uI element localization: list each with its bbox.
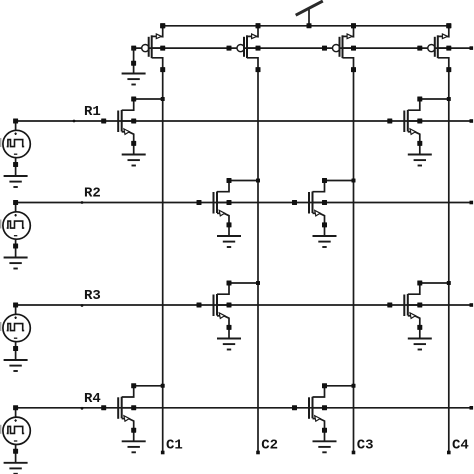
svg-text:C4: C4 <box>452 438 469 454</box>
transistor M7 PMOS pull-up on column C3 <box>322 23 356 72</box>
node: end of row R3 <box>470 303 474 307</box>
transistor M41 NMOS cell at row R4 column C1 with ground <box>101 383 165 452</box>
svg-text:R1: R1 <box>84 104 101 120</box>
ground of PMOS gate bus <box>122 74 146 85</box>
node: top rail junction at column C3 <box>351 23 356 28</box>
node: wire vertex on row R1 <box>73 120 76 123</box>
wire: PMOS gate bus to ground <box>131 48 136 73</box>
svg-text:R3: R3 <box>84 288 101 304</box>
node: end of row R2 <box>470 201 474 205</box>
node: bottom end of column C3 <box>352 451 356 455</box>
node: top rail junction at column C1 <box>160 23 165 28</box>
voltage source V2 (pulse) with ground, drives row R2 <box>0 200 30 269</box>
transistor M6 PMOS pull-up on column C2 <box>227 23 261 72</box>
wire: column C4 vertical net <box>448 70 450 453</box>
wire: row R4 horizontal net <box>16 407 472 409</box>
node: top rail junction at column C4 <box>446 23 451 28</box>
wire: VDD top supply rail <box>163 25 449 27</box>
svg-text:R4: R4 <box>84 391 101 407</box>
node: top rail junction at column C2 <box>256 23 261 28</box>
power symbol VDD (stub and slash) <box>296 1 323 28</box>
wire: row R1 horizontal net <box>16 120 472 122</box>
wire: PMOS gate bus <box>134 47 472 49</box>
transistor M23 NMOS cell at row R2 column C3 with ground <box>292 178 356 247</box>
wire: column C1 vertical net <box>162 70 164 453</box>
node: wire vertex on row R3 <box>81 304 84 307</box>
voltage source V4 (pulse) with ground, drives row R4 <box>0 405 30 474</box>
node: wire vertex on row R4 <box>81 407 84 410</box>
transistor M32 NMOS cell at row R3 column C2 with ground <box>197 281 261 350</box>
svg-text:R2: R2 <box>84 186 101 202</box>
node: bottom end of column C2 <box>256 451 260 455</box>
node: wire vertex on row R2 <box>81 201 84 204</box>
svg-text:C2: C2 <box>261 438 278 454</box>
transistor M14 NMOS cell at row R1 column C4 with ground <box>387 97 451 166</box>
transistor M34 NMOS cell at row R3 column C4 with ground <box>387 281 451 350</box>
transistor M5 PMOS pull-up on column C1 <box>131 23 165 72</box>
voltage source V1 (pulse) with ground, drives row R1 <box>0 119 30 188</box>
transistor M11 NMOS cell at row R1 column C1 with ground <box>101 97 165 166</box>
transistor M8 PMOS pull-up on column C4 <box>417 23 451 72</box>
wire: column C3 vertical net <box>353 70 355 453</box>
voltage source V3 (pulse) with ground, drives row R3 <box>0 303 30 372</box>
transistor M22 NMOS cell at row R2 column C2 with ground <box>197 178 261 247</box>
node: end of row R1 <box>470 119 474 123</box>
wire: row R3 horizontal net <box>16 304 472 306</box>
node: bottom end of column C4 <box>447 451 451 455</box>
wire: column C2 vertical net <box>257 70 259 453</box>
node: end of gate bus <box>470 46 474 50</box>
svg-text:C1: C1 <box>166 438 183 454</box>
wire: row R2 horizontal net <box>16 202 472 204</box>
node: bottom end of column C1 <box>161 451 165 455</box>
transistor M43 NMOS cell at row R4 column C3 with ground <box>292 383 356 452</box>
svg-text:C3: C3 <box>357 438 374 454</box>
node: end of row R4 <box>470 406 474 410</box>
